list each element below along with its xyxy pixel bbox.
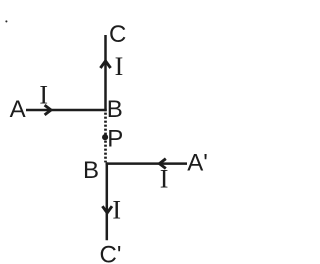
svg-text:A': A' bbox=[187, 149, 208, 176]
svg-text:I: I bbox=[115, 52, 124, 81]
svg-text:B: B bbox=[107, 96, 123, 123]
svg-text:I: I bbox=[160, 165, 169, 194]
svg-text:I: I bbox=[112, 196, 121, 225]
arrow I down on BC' bbox=[102, 206, 112, 213]
svg-text:C: C bbox=[109, 21, 126, 48]
arrow I right on AB bbox=[45, 105, 51, 115]
node P dot bbox=[102, 134, 108, 140]
wire AB (upper horizontal) bbox=[26, 109, 107, 112]
wire BC (upper vertical) bbox=[104, 35, 107, 111]
arrow I up on BC bbox=[100, 61, 110, 68]
stray dot top-left bbox=[5, 20, 7, 22]
svg-text:I: I bbox=[39, 81, 48, 110]
svg-text:P: P bbox=[107, 126, 123, 153]
wire BC' (lower vertical) bbox=[106, 162, 109, 240]
svg-text:A: A bbox=[10, 96, 26, 123]
svg-text:B: B bbox=[83, 157, 99, 184]
dotted wire B to B (gap) bbox=[104, 113, 107, 163]
wire BA' (lower horizontal) bbox=[106, 162, 187, 165]
svg-text:C': C' bbox=[100, 242, 122, 264]
arrow I left on BA' bbox=[159, 159, 165, 169]
